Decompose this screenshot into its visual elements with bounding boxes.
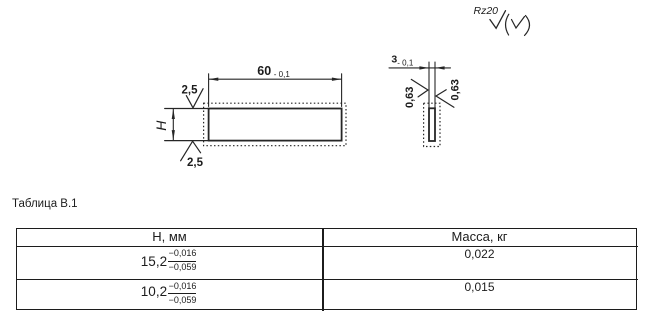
table row separator [16,279,638,281]
header cell Масса, кг [323,229,636,244]
svg-text:0,63: 0,63 [404,87,416,108]
plate side view outline [429,108,435,141]
dimension text 60 -0,1 [257,64,290,79]
svg-text:Rz20: Rz20 [474,5,499,17]
cell 0,022 [323,248,636,260]
extension line left (3 dim) [428,62,430,108]
roughness mark 2,5 bottom surface (rotated 180) [181,141,201,161]
svg-text:2,5: 2,5 [182,84,199,96]
dimension line H with arrows [172,109,175,141]
table caption [12,198,78,210]
dimension text 3 -0,1 [391,54,413,68]
svg-text:- 0,1: - 0,1 [274,70,291,79]
extension line right (60 dim) [341,74,343,107]
cell 10,2 with tolerance fraction [141,285,167,299]
general roughness check mark [490,11,506,29]
extension line left (60 dim) [208,74,210,107]
parenthesis right [525,16,530,36]
extension line bottom-left (H dim) [165,140,209,142]
side view dotted blank contour [424,103,440,146]
extension line top-left (H dim) [165,108,209,110]
front view dotted blank contour [204,103,346,146]
svg-text:60: 60 [257,64,271,78]
check mark in parentheses [512,17,525,29]
cell 0,015 [323,281,636,293]
svg-text:H: H [153,120,169,131]
roughness mark 0,63 right side [436,90,454,108]
engineering drawing (two views of plate) [0,0,650,200]
header cell H, мм [17,229,322,244]
table outer border [16,228,637,310]
svg-text:- 0,1: - 0,1 [397,58,414,67]
parenthesis left [506,14,509,35]
dimension line 3 with inward arrows [389,66,451,69]
dimension line 60 with arrows [209,78,342,81]
roughness mark 0,63 left side [411,79,428,97]
plate front view outline [209,109,342,141]
roughness mark 2,5 top surface [186,89,203,108]
table column separator [322,228,324,311]
extension line right (3 dim) [434,62,436,108]
table header separator [16,246,638,248]
svg-text:0,63: 0,63 [450,79,462,100]
cell 15,2 with tolerance fraction [141,255,167,269]
svg-text:2,5: 2,5 [187,157,204,169]
